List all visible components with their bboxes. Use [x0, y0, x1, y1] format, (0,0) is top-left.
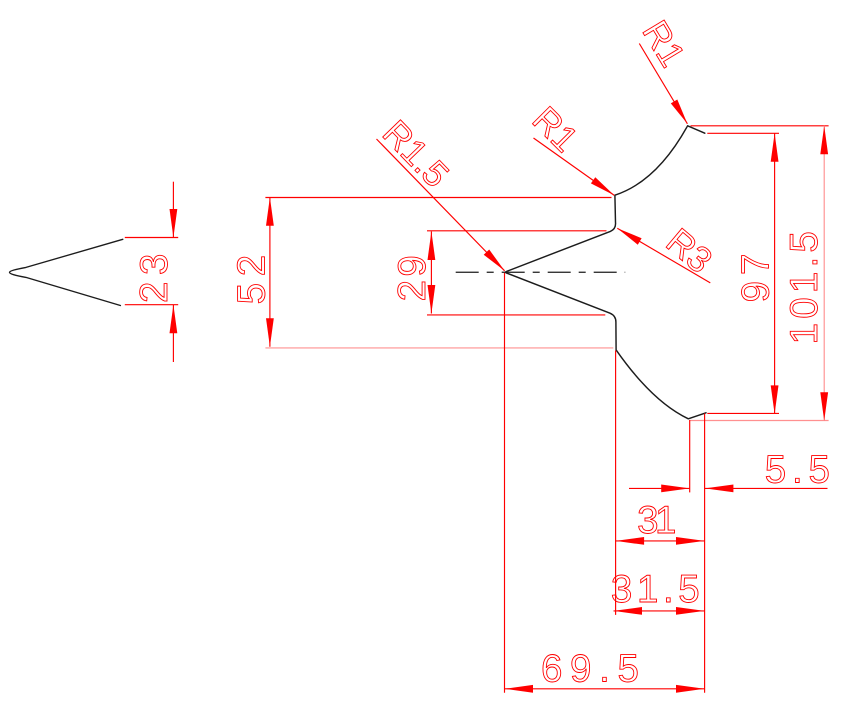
svg-text:5.5: 5.5: [765, 449, 836, 492]
svg-text:23: 23: [133, 247, 176, 303]
svg-text:31: 31: [637, 499, 675, 542]
svg-text:97: 97: [734, 248, 777, 303]
svg-text:101.5: 101.5: [783, 227, 826, 344]
svg-text:52: 52: [230, 248, 273, 304]
svg-text:R1.5: R1.5: [375, 112, 457, 195]
svg-text:R3: R3: [659, 220, 721, 281]
svg-text:R1: R1: [525, 98, 587, 160]
svg-text:29: 29: [391, 252, 434, 301]
svg-text:R1: R1: [635, 13, 694, 74]
svg-text:69.5: 69.5: [541, 648, 647, 691]
svg-text:31.5: 31.5: [611, 568, 704, 611]
